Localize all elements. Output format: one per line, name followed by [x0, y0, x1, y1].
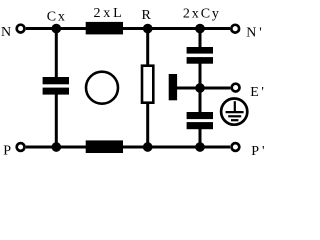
wire R bottom lead [146, 103, 149, 147]
svg-text:E': E' [250, 85, 265, 100]
inductor L bottom (2xL) [86, 140, 123, 153]
wire Cy middle column [199, 64, 202, 113]
node Cx bottom junction [51, 142, 61, 152]
node R bottom junction [143, 142, 153, 152]
node Cy bottom junction [195, 142, 205, 152]
wire top rail N to N' [26, 27, 230, 30]
terminal E' [232, 84, 240, 92]
terminal N' [231, 25, 239, 33]
wire E junction to E' [200, 87, 230, 90]
svg-text:N': N' [246, 25, 265, 40]
capacitor Cx [43, 77, 69, 95]
terminal N [17, 25, 25, 33]
wire bottom rail P to P' [26, 146, 230, 149]
wire R top lead [146, 29, 149, 67]
svg-text:N: N [1, 25, 11, 40]
earth symbol [221, 99, 247, 125]
svg-text:P': P' [251, 144, 265, 159]
choke core [86, 72, 118, 104]
capacitor Cy bottom [187, 112, 213, 129]
node Cy top junction [195, 24, 205, 34]
svg-text:Cx: Cx [47, 10, 67, 25]
svg-text:2xL: 2xL [94, 6, 125, 21]
node E junction [195, 83, 205, 93]
svg-text:P: P [3, 144, 11, 159]
resistor R [142, 66, 153, 103]
wire Cy bottom lead [199, 129, 202, 147]
svg-text:2xCy: 2xCy [183, 6, 221, 21]
svg-text:R: R [142, 8, 152, 23]
wire Cy top lead [199, 29, 202, 49]
terminal P' [232, 143, 240, 151]
inductor L top (2xL) [86, 22, 123, 35]
capacitor Cy top [187, 47, 213, 64]
wire Cx top lead [55, 29, 58, 79]
node R top junction [143, 24, 153, 34]
earth plate [169, 74, 177, 100]
wire plate stub to E junction [177, 87, 201, 90]
node Cx top junction [51, 24, 61, 34]
terminal P [17, 143, 25, 151]
wire Cx bottom lead [55, 94, 58, 147]
